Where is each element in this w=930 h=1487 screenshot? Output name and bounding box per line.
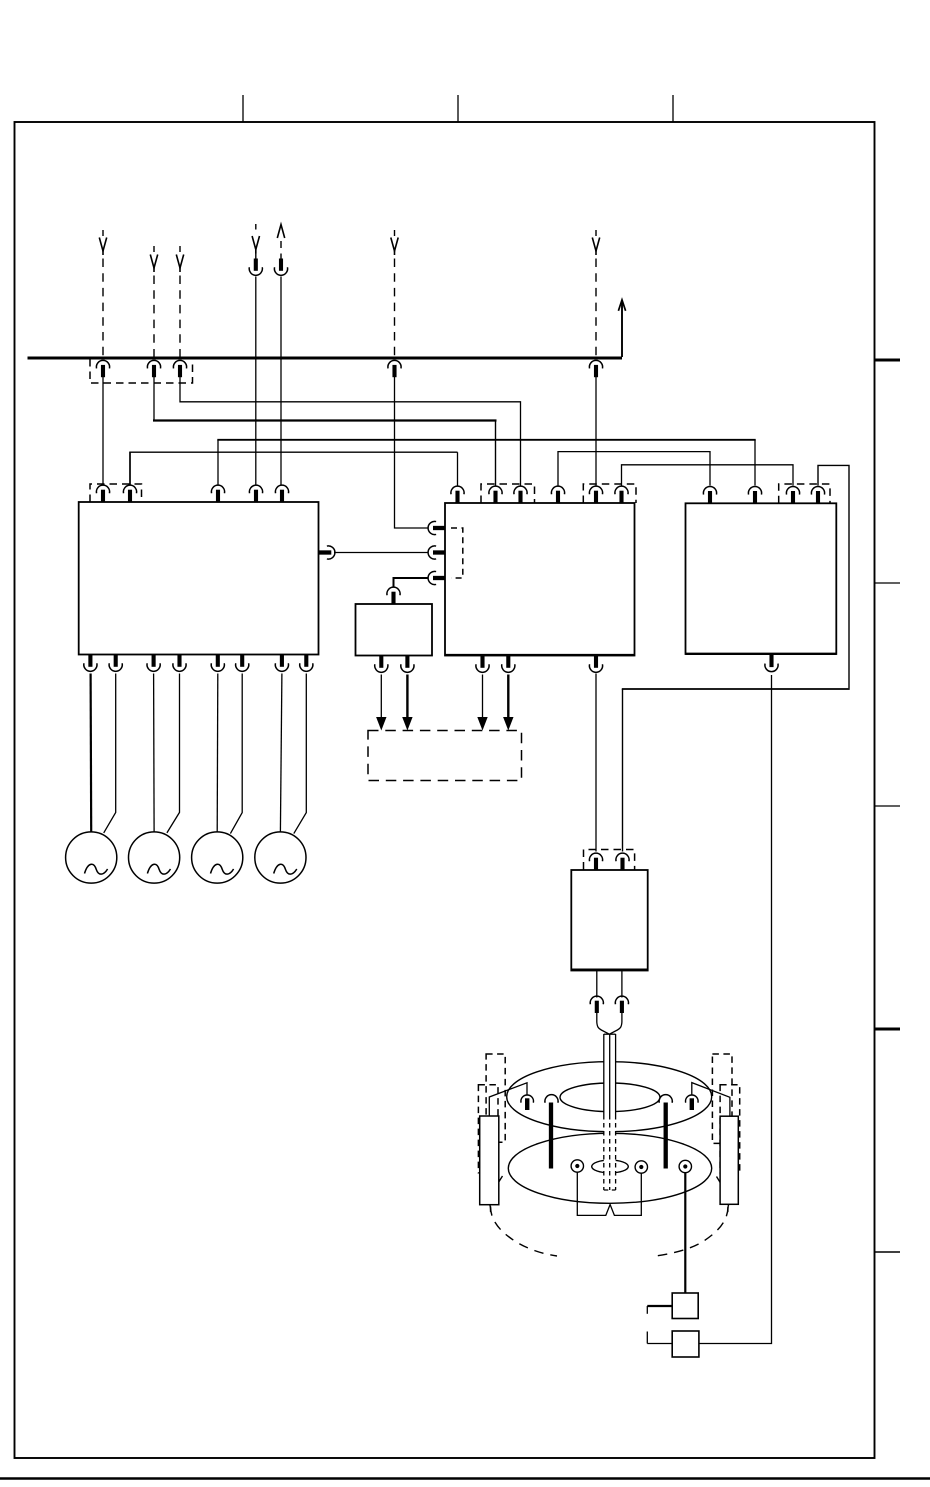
box B top pin 1 bbox=[451, 486, 464, 494]
bus connector 5 bbox=[589, 360, 602, 368]
box B bottom pin 2 bbox=[506, 656, 510, 668]
bus connector 4 bbox=[388, 360, 401, 368]
right sender dashed housing upper bbox=[712, 1054, 732, 1143]
top margin tick 3 bbox=[672, 95, 674, 122]
box A bottom pin 3 bbox=[152, 655, 156, 667]
box C top pins 3-4 dashed connector bbox=[779, 484, 830, 503]
box B bottom pin 3 bbox=[594, 656, 598, 668]
wire bus2 to box B pin2 bbox=[153, 377, 155, 421]
box B top pin 4 bbox=[551, 486, 564, 494]
bus end up-arrow wire bbox=[621, 302, 623, 357]
left sender wire bbox=[489, 1083, 527, 1116]
box B control unit bbox=[445, 503, 635, 656]
bus connector 3 bbox=[173, 360, 186, 368]
glow plug 4 bbox=[255, 832, 306, 883]
wire box A pin4 to glow plug 2 bbox=[167, 674, 180, 833]
box B top pins 2-3 dashed connector bbox=[481, 484, 535, 503]
box C top pin 3 bbox=[786, 486, 799, 494]
box A control unit bbox=[79, 502, 319, 655]
pump unit top pin 1 bbox=[589, 853, 602, 861]
wire box B pin2 to load box bbox=[507, 675, 509, 720]
top margin tick 1 bbox=[242, 95, 244, 122]
off-page arrow wire a bbox=[102, 230, 104, 236]
box A bottom pin 1 bbox=[88, 655, 92, 667]
bus connector 1 bbox=[96, 360, 109, 368]
bar left cup bbox=[545, 1095, 558, 1103]
left sender body bbox=[480, 1116, 499, 1205]
pump unit wires into tank tube bbox=[597, 1013, 610, 1034]
wire box A pin3 to box C pin2 bbox=[217, 440, 219, 486]
right margin tick 3 bbox=[875, 805, 901, 807]
off-page arrow wire e bbox=[595, 230, 597, 236]
terminal block 1 bbox=[672, 1293, 698, 1319]
box A top pin 5 bbox=[275, 485, 288, 493]
terminal block 1 stub wire bbox=[647, 1305, 672, 1307]
wire small box pin1 to load box bbox=[380, 675, 382, 720]
top margin tick 2 bbox=[457, 95, 459, 122]
box A right side male connector bbox=[319, 550, 332, 554]
wire box A pin3 to glow plug 2 bbox=[153, 674, 156, 832]
box B left pins dashed bracket bbox=[451, 528, 463, 578]
inline connector CN2 bbox=[279, 259, 283, 271]
wire small box pin2 to load box bbox=[406, 675, 408, 720]
inline connector CN2 outgoing arrow bbox=[277, 225, 284, 239]
box B bottom edge emphasis bbox=[445, 654, 635, 656]
box B left pin L1 bbox=[433, 526, 445, 530]
wire small box to box B left pin L3 bbox=[394, 578, 429, 587]
tank mounting bar right bbox=[664, 1103, 668, 1169]
box A top pins dashed connector bbox=[90, 484, 142, 502]
left sender dashed housing lower bbox=[478, 1085, 498, 1173]
dashed load box bbox=[368, 731, 522, 781]
wire box C to fuel pump terminal block bbox=[699, 675, 772, 1344]
box C bottom edge emphasis bbox=[686, 653, 837, 655]
terminal 1-2 jumper wire bbox=[577, 1172, 641, 1215]
wire box A pin2 to glow plug 1 bbox=[104, 674, 116, 833]
pump unit top pins dashed connector bbox=[584, 850, 635, 870]
wire bus5 to box B pin5 bbox=[595, 377, 597, 486]
right margin tick 5 bbox=[875, 1251, 901, 1253]
bottom rule bbox=[0, 1477, 930, 1480]
wire box B pin3 to pump unit pin1 bbox=[595, 674, 597, 852]
bar right cup bbox=[659, 1095, 672, 1103]
tank mounting bar left bbox=[549, 1103, 553, 1169]
wire box A pin6 to glow plug 3 bbox=[230, 674, 242, 834]
tank bottom dashed outline left bbox=[491, 1176, 557, 1256]
wire box B pin6 to box C pin3 bbox=[622, 465, 794, 486]
bus connector group dashed cover bbox=[90, 359, 193, 383]
small box bottom pin 1 bbox=[379, 656, 383, 668]
wire CN2 to box A pin5 bbox=[280, 277, 282, 486]
box A bottom pin 5 bbox=[216, 655, 220, 667]
box C bottom pin bbox=[769, 655, 773, 667]
right sender wire bbox=[692, 1083, 730, 1117]
box B left pin L2 bbox=[433, 550, 445, 554]
terminal block 2 stub wire bbox=[647, 1343, 672, 1345]
tank terminal 1 bbox=[571, 1160, 583, 1172]
box B top pin 6 bbox=[615, 486, 628, 494]
box A top pin 1 bbox=[96, 485, 109, 493]
tank terminal 2 bbox=[635, 1161, 647, 1173]
terminal 3 feed wire bbox=[684, 1173, 686, 1293]
pump unit bottom pin 2 bbox=[621, 971, 623, 998]
pump unit top pin 2 bbox=[616, 853, 629, 861]
box C top pin 2 bbox=[748, 486, 761, 494]
main power feed bus bbox=[28, 357, 623, 360]
box B top pins 5-6 dashed connector bbox=[583, 484, 636, 503]
small sensor box bbox=[356, 604, 433, 656]
left sender bottom tail bbox=[489, 1205, 492, 1213]
pump unit bottom pin 1 bbox=[596, 971, 598, 998]
glow plug 3 bbox=[192, 832, 243, 883]
box A top pin 2 bbox=[123, 485, 136, 493]
box A top pin 4 bbox=[249, 485, 262, 493]
right sender dashed housing lower bbox=[720, 1085, 740, 1173]
right sender body bbox=[720, 1116, 738, 1204]
box C control unit bbox=[686, 503, 837, 654]
wire box A pin5 to glow plug 3 bbox=[216, 674, 219, 832]
box B left pin L3 bbox=[433, 576, 445, 580]
inline connector CN1 incoming arrow bbox=[255, 224, 257, 230]
pump unit bottom edge emphasis bbox=[571, 968, 647, 970]
wire box A pin8 to glow plug 4 bbox=[294, 674, 307, 834]
box A top pin 3 bbox=[211, 485, 224, 493]
box A bottom pin 8 bbox=[304, 655, 308, 667]
box B top pin 2 bbox=[489, 486, 502, 494]
terminal block 2 bbox=[672, 1331, 699, 1357]
right margin tick 2 bbox=[875, 582, 901, 584]
wire box A pin2 to box B pin1 bbox=[129, 452, 131, 486]
box C top pin 1 bbox=[703, 486, 716, 494]
right margin tick 1 bbox=[875, 359, 901, 362]
box A bottom pin 4 bbox=[177, 655, 181, 667]
wire box A pin1 to glow plug 1 bbox=[89, 674, 92, 832]
tank terminal 3 bbox=[679, 1160, 691, 1172]
inline connector CN1 bbox=[254, 259, 258, 271]
off-page arrow wire d bbox=[394, 230, 396, 236]
off-page arrow wire b bbox=[153, 246, 155, 252]
box A bottom pin 7 bbox=[280, 655, 284, 667]
small box bottom pin 2 bbox=[405, 656, 409, 668]
wire bus3 to box B pin3 bbox=[180, 377, 521, 486]
tank flange connector left bbox=[521, 1095, 534, 1103]
glow plug 2 bbox=[129, 832, 180, 883]
bus end arrowhead bbox=[618, 300, 625, 311]
glow plug 1 bbox=[66, 832, 117, 883]
small box top pin bbox=[387, 587, 400, 595]
tank upper flange ellipse bbox=[507, 1062, 712, 1132]
box A bottom pin 6 bbox=[240, 655, 244, 667]
box B top pin 3 bbox=[514, 486, 527, 494]
tank flange inner hole bbox=[560, 1083, 660, 1112]
wire bus1 to box A pin1 bbox=[102, 377, 104, 486]
wire box A male to box B left pin L2 bbox=[334, 552, 429, 554]
pump controller unit box bbox=[571, 870, 647, 971]
wire bus4 to box B left pin L1 bbox=[395, 377, 429, 528]
bus connector 2 bbox=[147, 360, 160, 368]
box B bottom pin 1 bbox=[480, 656, 484, 668]
tank lower plate ellipse bbox=[508, 1133, 711, 1203]
box A bottom pin 2 bbox=[114, 655, 118, 667]
wire box A pin7 to glow plug 4 bbox=[280, 674, 282, 832]
box B top pin 5 bbox=[589, 486, 602, 494]
wire box B pin4 to box C pin1 bbox=[558, 452, 710, 486]
wire CN1 to box A pin4 bbox=[255, 277, 257, 486]
tank bottom dashed outline right bbox=[656, 1177, 728, 1257]
off-page arrow wire c bbox=[179, 246, 181, 252]
box C top pin 4 bbox=[811, 486, 824, 494]
right margin tick 4 bbox=[875, 1028, 901, 1031]
wire box B pin1 to load box bbox=[482, 675, 484, 720]
tank center small ellipse bbox=[592, 1160, 629, 1173]
wire box C pin4 to pump unit pin2 bbox=[818, 465, 849, 688]
tank flange connector right bbox=[685, 1095, 698, 1103]
fuel pickup tube bbox=[604, 1034, 616, 1190]
right sender bottom tail bbox=[727, 1205, 730, 1213]
left sender dashed housing upper bbox=[486, 1054, 505, 1142]
